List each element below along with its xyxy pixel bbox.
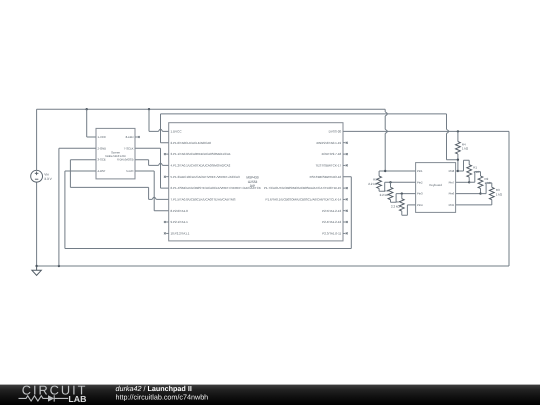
svg-text:2-GND: 2-GND [98,146,107,150]
svg-text:4.P1.2/TA0.1/UCA0TXD/UCA0SIMO/: 4.P1.2/TA0.1/UCA0TXD/UCA0SIMO/A2/CA2 [171,164,231,168]
svg-text:8.P2.0/TA1.0: 8.P2.0/TA1.0 [171,209,189,213]
node junction R2 bottom / keypad Pin6 [479,192,481,194]
svg-text:2.2 kΩ: 2.2 kΩ [380,193,390,197]
node junction R4 top / DVSS rail [457,130,459,132]
wire RST bottom run [65,248,351,250]
svg-text:RST/NMI/SBWTDIO-16: RST/NMI/SBWTDIO-16 [310,175,342,179]
wire right ground rail [508,131,510,266]
wire keypad Pin7 row [456,181,470,183]
svg-text:Pin2: Pin2 [417,180,423,184]
wire LCD SCLK to MSP P1.4 [135,148,169,188]
wire RST riser to MSP pin 16 [343,177,351,249]
wire LCD D/C to MSP P2.0 [135,171,169,211]
svg-text:3.3 V: 3.3 V [44,177,52,181]
U1 right pin 13 no-connect stub [343,210,346,212]
wire LCD SCE to MSP P1.5 [70,160,168,200]
IC keypad box [416,163,456,213]
wire keypad Pin2 row [385,181,416,183]
wire MSP P1.0 to keypad ladder (top run) [161,114,447,143]
IC U1 MSP430 G2553 DIP box [169,123,343,241]
wire keypad Pin4 row [407,204,415,206]
wire bottom ground rail [37,265,509,267]
node junction R4 lead / ladder run [457,159,459,161]
wire keypad Pin5 row [456,204,492,206]
svg-text:Pin1: Pin1 [417,169,423,173]
svg-text:P1.6/TA0.1/UCB0SOMI/UCB0SCL/A6: P1.6/TA0.1/UCB0SOMI/UCB0SCL/A6/CA6/TDI/T… [266,198,342,202]
U1 right pin 14 no-connect stub [343,198,346,200]
svg-text:10.P2.2/TA1.1: 10.P2.2/TA1.1 [171,232,190,236]
svg-text:3-SCE: 3-SCE [98,158,106,162]
voltage source V1 Vin 3.3V [31,170,43,182]
wire DVSS rail (MSP pin 20 to right rail) [343,130,509,132]
wire DVCC (MSP pin 1) [149,109,169,131]
svg-text:P2.3/TA1.0-11: P2.3/TA1.0-11 [322,232,341,236]
wire keypad VCC drop [384,109,386,171]
wire LCD GND [59,148,96,266]
svg-text:http://circuitlab.com/c74nwbh: http://circuitlab.com/c74nwbh [116,392,209,401]
svg-text:P2.4/TA1.2-12: P2.4/TA1.2-12 [322,220,341,224]
svg-text:9.P2.1/TA1.1: 9.P2.1/TA1.1 [171,220,189,224]
svg-text:7.P1.5/TA0.0/UCB0CLK/UCA0STE/A: 7.P1.5/TA0.0/UCB0CLK/UCA0STE/A5/CA5/TMS [171,198,236,202]
node junction top rail / LCD VCC drop [86,108,88,110]
svg-text:3.P1.1/TA0.0/UCA0RXD/UCA0SOMI/: 3.P1.1/TA0.0/UCA0RXD/UCA0SOMI/A1/CA1 [171,152,231,156]
svg-text:1 kΩ: 1 kΩ [462,147,469,151]
wire LCD MOSI to MSP P1.2 [135,160,169,166]
svg-text:Pin8: Pin8 [449,169,455,173]
wire hop VCC drop over DVSS rail [385,129,387,133]
svg-text:2.2 kΩ: 2.2 kΩ [368,182,378,186]
node junction R7 top / Pin3 row [401,192,403,194]
svg-text:XOUT/P2.7-18: XOUT/P2.7-18 [322,152,342,156]
ground [32,266,41,275]
node junction ground rail / Vin- [35,265,37,267]
U1 left pin 9 no-connect stub [166,221,169,223]
wire hop DVCC over P1.0 riser [159,129,163,131]
wire Vin- to ground rail [36,182,38,266]
svg-text:Keyboard: Keyboard [430,183,443,187]
wire ladder right drop [447,114,458,160]
svg-text:1.DVCC: 1.DVCC [171,130,183,134]
svg-text:7-SCLK: 7-SCLK [124,146,134,150]
wire LCD VCC drop [87,109,96,137]
IC screen Nokia 5110 LCD box [96,128,135,179]
resistor R7 2.2k [401,194,403,199]
svg-text:Vin: Vin [44,173,49,177]
logo resistor-diode symbol [19,396,49,401]
U1 right pin 12 no-connect stub [343,221,346,223]
svg-text:5-D/C: 5-D/C [126,169,133,173]
resistor R6 2.2k [390,182,392,187]
node junction R4 bottom / keypad Pin8 [457,170,459,172]
pin 8 LED no-connect stub [135,136,138,138]
svg-text:1 kΩ: 1 kΩ [496,192,503,196]
svg-text:1-VCC: 1-VCC [98,135,106,139]
resistor R3 1k [481,183,492,194]
wire hop VCC drop over P1.0 run [385,112,387,116]
wire LCD RST left drop [65,171,96,249]
svg-text:2.2 kΩ: 2.2 kΩ [391,205,401,209]
svg-text:Pin4: Pin4 [417,203,423,207]
resistor R1 1k [458,160,469,171]
svg-text:6.P1.4/SMCLK/UCB0STE/UCA0CLK/V: 6.P1.4/SMCLK/UCB0STE/UCA0CLK/VREF+/VEREF… [171,186,261,190]
U1 left pin 3 no-connect stub [166,153,169,155]
wire hop MOSI over SCLK [159,163,163,165]
svg-text:TEST/SBWTCK-17: TEST/SBWTCK-17 [316,164,342,168]
resistor R4 1k [457,131,459,141]
resistor R5 2.2k [378,171,380,176]
svg-text:4-RST: 4-RST [98,169,106,173]
svg-text:P2.5/TA1.2-13: P2.5/TA1.2-13 [322,209,341,213]
node junction ground rail / LCD GND [58,265,60,267]
svg-text:5.P1.3/ADC10CLK/CAOUT/VREF-/VE: 5.P1.3/ADC10CLK/CAOUT/VREF-/VEREF-/A3/CA… [171,175,241,179]
svg-text:Pin7: Pin7 [449,180,455,184]
wire Vin+ to top rail [36,109,38,170]
U1 right pin 11 no-connect stub [343,232,346,234]
svg-text:LAB: LAB [68,394,86,404]
U1 right pin 15 no-connect stub [343,187,346,189]
wire hop ladder drop over DVSS rail [447,129,449,133]
wire keypad Pin1 row [379,170,416,172]
U1 left pin 10 no-connect stub [166,232,169,234]
resistor R2 1k [469,172,480,183]
U1 right pin 17 no-connect stub [343,164,346,166]
wire keypad Pin8 row [456,170,458,172]
svg-text:Pin5: Pin5 [449,203,455,207]
svg-text:6-DN (MOSI): 6-DN (MOSI) [117,158,133,162]
wire hop SCE over D/C [152,197,156,199]
svg-text:P1.7/CAOUT/UCB0SIMO/UCB0SDA/A7: P1.7/CAOUT/UCB0SIMO/UCB0SDA/A7/CA7/TDO/T… [264,186,342,190]
node junction R6 top / Pin2 row [389,181,391,183]
U1 right pin 19 no-connect stub [343,142,346,144]
svg-text:8-LED: 8-LED [126,135,134,139]
U1 left pin 5 no-connect stub [166,176,169,178]
wire top rail (VCC) [37,108,386,110]
wire keypad Pin3 row [396,193,416,195]
svg-text:Pin6: Pin6 [449,192,455,196]
node junction top rail / DVCC drop [148,108,150,110]
svg-text:XIN/P2.6/TA0.1-19: XIN/P2.6/TA0.1-19 [316,141,341,145]
svg-text:Pin3: Pin3 [417,192,423,196]
wire keypad Pin6 row [456,193,481,195]
svg-text:2.P1.0/TA0CLK/ACLK/A0/CA0: 2.P1.0/TA0CLK/ACLK/A0/CA0 [171,141,212,145]
node junction VCC drop / Pin1 row [384,170,386,172]
footer bar [0,385,540,405]
node junction R1 bottom / keypad Pin7 [468,181,470,183]
U1 right pin 18 no-connect stub [343,153,346,155]
svg-text:DVSS-20: DVSS-20 [329,130,342,134]
